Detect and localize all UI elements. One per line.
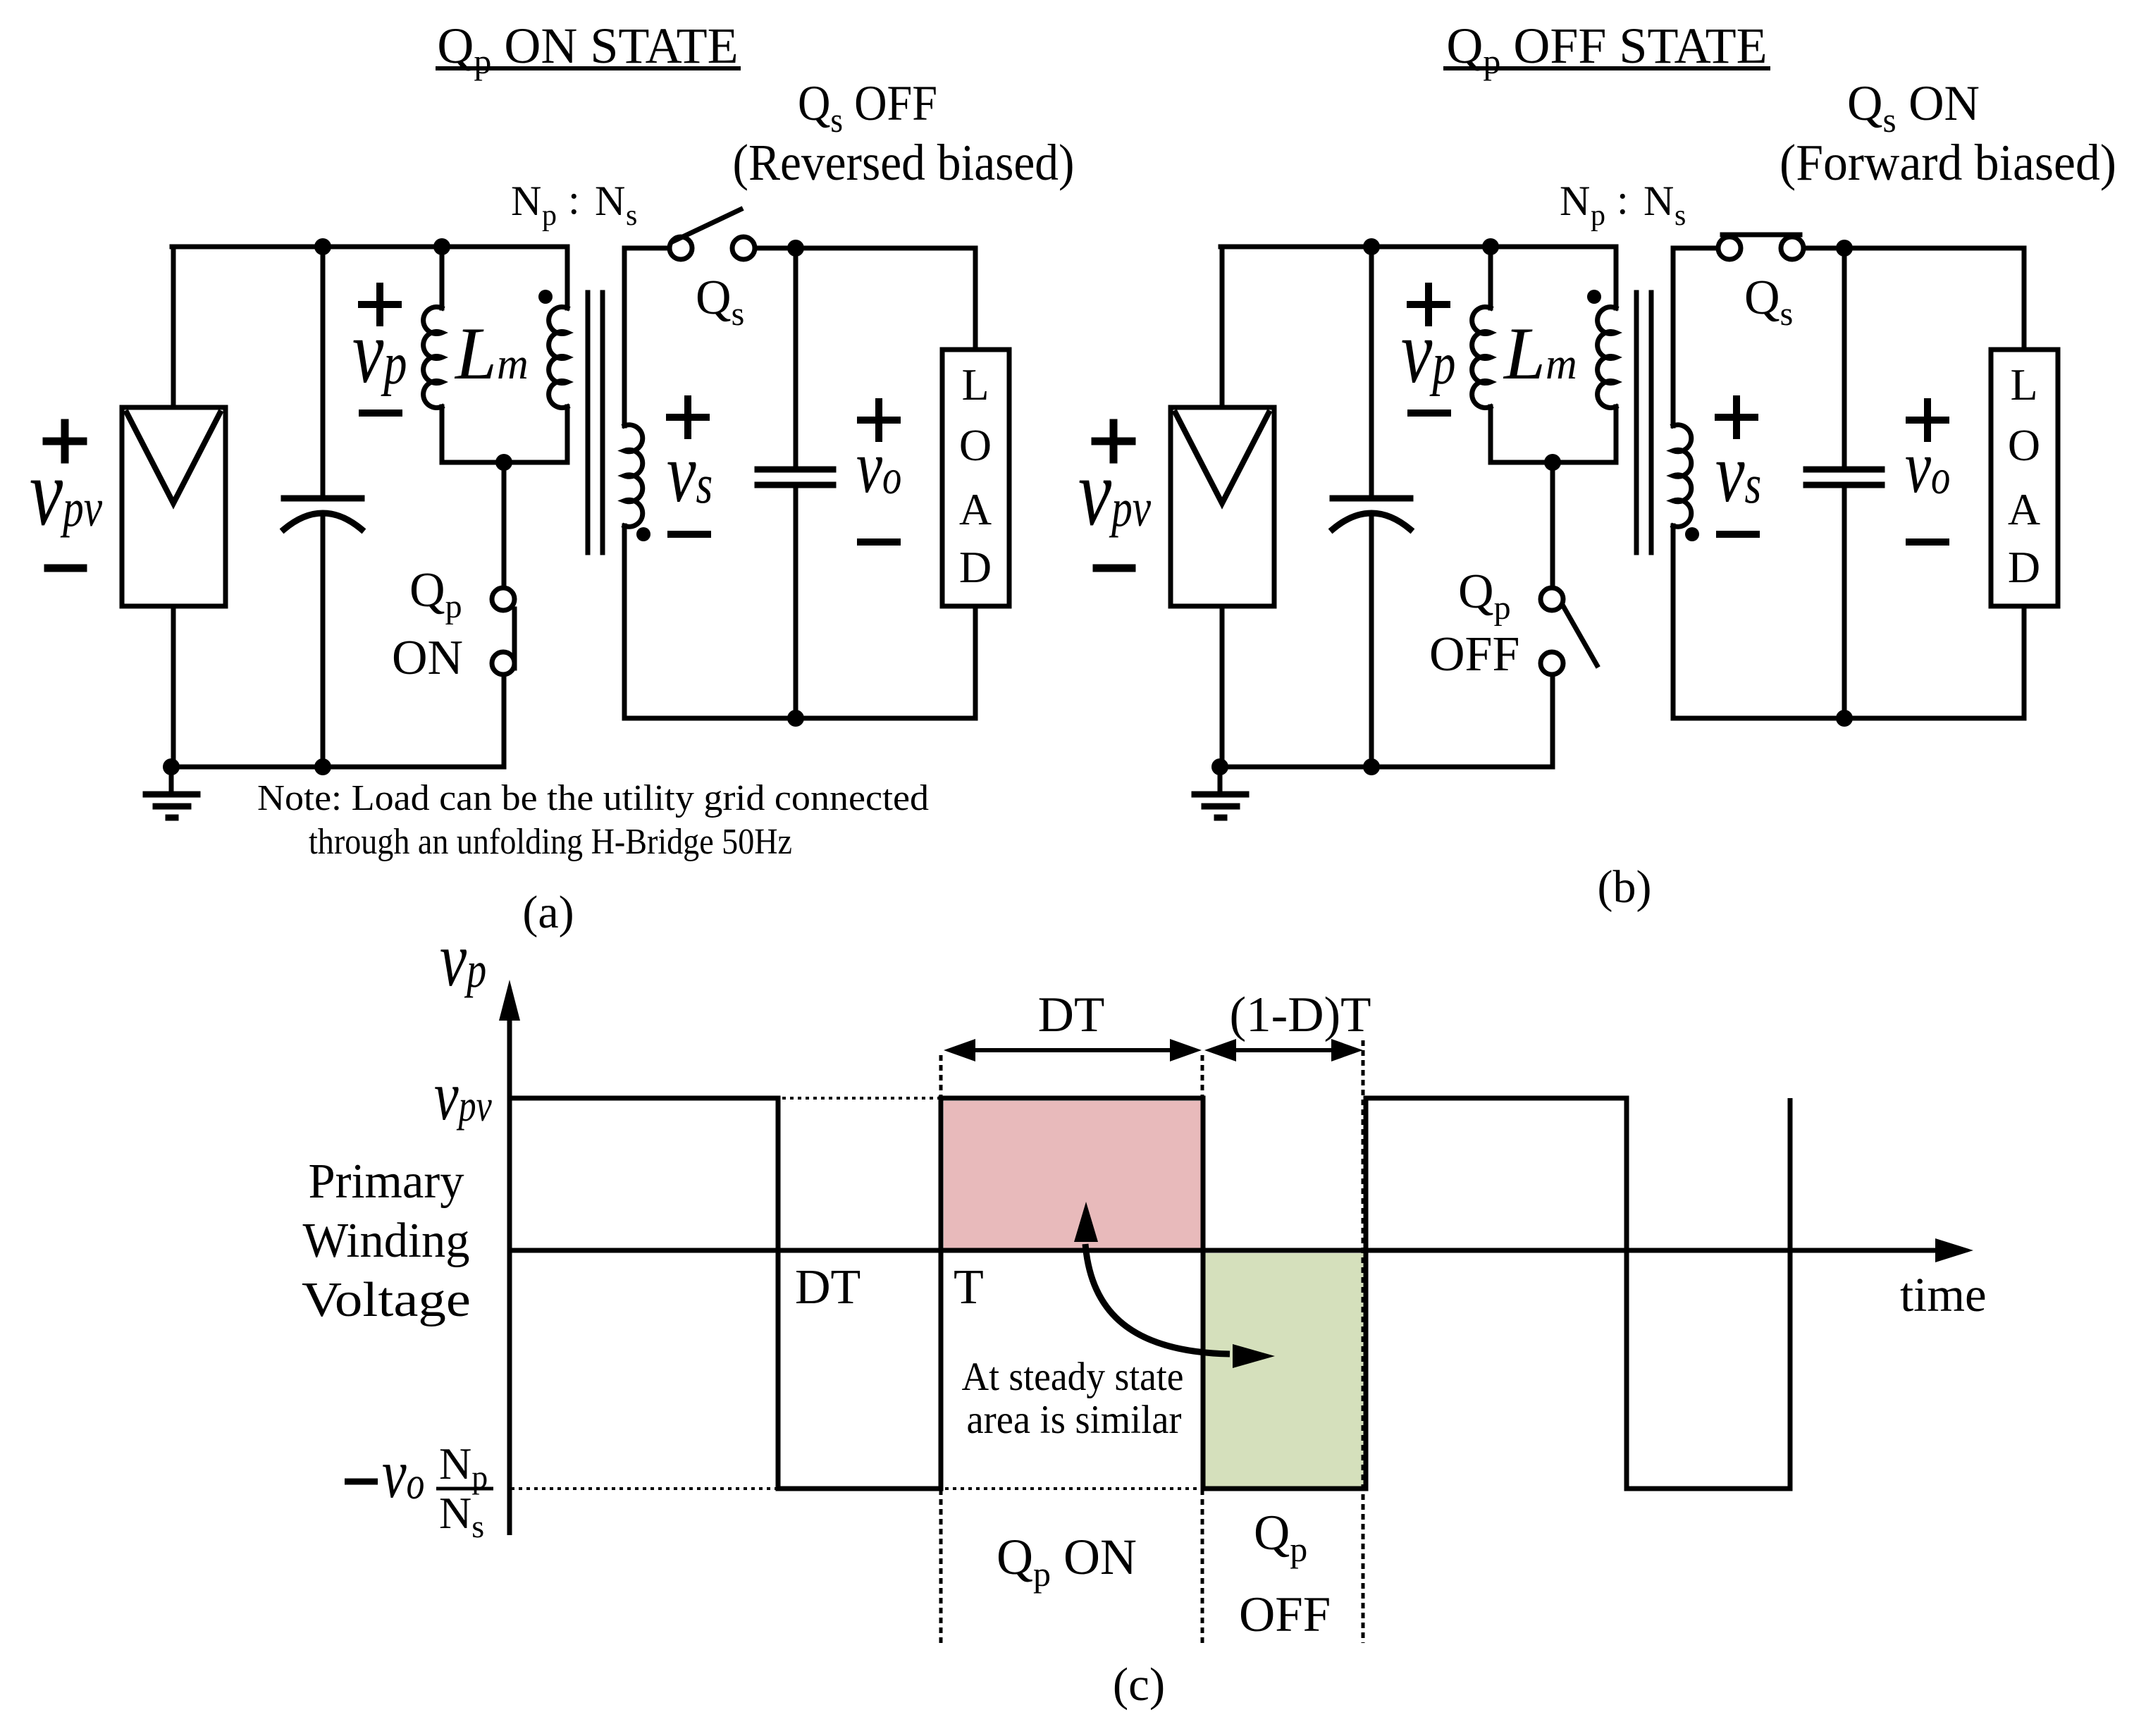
wire: Qp lower lead (b) — [1550, 675, 1555, 767]
svg-text:(Reversed biased): (Reversed biased) — [733, 134, 1075, 191]
note text — [257, 778, 929, 862]
dotted boundary at T — [939, 1055, 943, 1643]
transformer secondary winding (b) — [1673, 248, 1691, 718]
secondary polarity dot (b) — [1685, 527, 1699, 541]
wire: PV bottom lead (a) — [171, 606, 176, 767]
svg-text:A: A — [959, 484, 992, 534]
svg-text:DT: DT — [795, 1260, 861, 1315]
label: + vpv - (a) — [30, 423, 103, 568]
svg-text:Primary: Primary — [309, 1155, 464, 1209]
svg-text::: : — [568, 176, 580, 223]
svg-text:A: A — [2008, 484, 2040, 534]
dotted level line vpv — [511, 1097, 944, 1100]
svg-text:(b): (b) — [1598, 861, 1652, 913]
svg-text:N: N — [595, 178, 625, 224]
dotted boundary at 2T — [1362, 1040, 1365, 1643]
node: output cap top junction (b) — [1836, 240, 1853, 257]
PV source (solar panel) (b) — [1171, 407, 1274, 606]
load resistor block (b) — [1991, 350, 2058, 606]
label: At steady state / area is similar — [962, 1355, 1184, 1442]
node: top rail junction at Lm (a) — [433, 238, 450, 255]
curved arrow (steady state areas) — [1074, 1202, 1275, 1368]
label: Qp OFF (waveform) — [1239, 1506, 1331, 1642]
svg-text:T: T — [954, 1260, 984, 1315]
capacitor Cin (a) — [284, 247, 362, 767]
node: top rail junction at Cin (a) — [314, 238, 331, 255]
wire: load bottom lead (a) — [973, 606, 978, 718]
transformer core (a) — [588, 293, 603, 553]
capacitor Cout (b) — [1806, 248, 1882, 718]
wire: top rail (a) — [172, 245, 567, 250]
wire: PV bottom lead (b) — [1220, 606, 1225, 767]
svg-text:D: D — [959, 542, 992, 592]
label: Np : Ns turns ratio (b) — [1560, 176, 1686, 232]
(1-D)T duration arrow — [1204, 1039, 1363, 1061]
DT duration arrow — [944, 1039, 1202, 1061]
transformer primary winding (b) — [1598, 247, 1616, 462]
svg-text:Qs ON: Qs ON — [1847, 76, 1980, 140]
node: top rail junction at Cin (b) — [1363, 238, 1380, 255]
svg-text:Qs OFF: Qs OFF — [798, 76, 937, 140]
wire: load top lead (b) — [2022, 248, 2027, 350]
wire: Qp upper lead (a) — [502, 462, 507, 588]
wire: PV top lead (a) — [171, 247, 176, 407]
wire: primary loop bottom (b) — [1491, 460, 1616, 465]
square wave vp(t) — [510, 1098, 1790, 1489]
svg-text:Winding: Winding — [303, 1214, 470, 1268]
shaded DT area (pink) — [944, 1101, 1201, 1249]
node: output cap top junction (a) — [787, 240, 804, 257]
node: top rail junction at Lm (b) — [1482, 238, 1499, 255]
label: + vp - (b) — [1401, 286, 1455, 413]
inductor Lm (magnetizing) (b) — [1472, 247, 1491, 462]
label: Primary Winding Voltage — [302, 1155, 471, 1327]
dotted level line -voNp/Ns — [511, 1487, 1203, 1490]
transformer secondary winding (a) — [624, 248, 643, 718]
svg-text:N: N — [1560, 178, 1590, 224]
svg-text:(a): (a) — [522, 887, 574, 938]
label: + vs - (b) — [1715, 399, 1761, 534]
svg-text:p: p — [542, 199, 557, 232]
label: + vo - (a) — [856, 402, 901, 542]
wire: PV top lead (b) — [1220, 247, 1225, 407]
svg-text:Note: Load can be the utility: Note: Load can be the utility grid conne… — [257, 778, 929, 818]
svg-text:Qp ON: Qp ON — [997, 1529, 1137, 1594]
node: PV-ground junction (a) — [163, 758, 180, 775]
primary polarity dot (b) — [1587, 290, 1601, 304]
secondary polarity dot (a) — [636, 527, 650, 541]
wire: load top lead (a) — [973, 248, 978, 350]
wire: switch to load corner (a) — [755, 246, 975, 251]
svg-text:(1-D)T: (1-D)T — [1229, 987, 1371, 1042]
y axis vp — [499, 980, 520, 1535]
node: Qp top junction (a) — [495, 454, 512, 471]
wire: Qp upper lead (b) — [1550, 462, 1555, 588]
svg-text:At steady state: At steady state — [962, 1355, 1184, 1399]
label: + vp - (a) — [352, 286, 407, 413]
node: capacitor bottom junction (b) — [1363, 758, 1380, 775]
label: Qp OFF (b) — [1429, 565, 1519, 682]
primary polarity dot (a) — [538, 290, 553, 304]
transformer core (b) — [1636, 293, 1651, 553]
svg-text:N: N — [1643, 178, 1674, 224]
label: Qp ON (a) — [392, 563, 463, 685]
svg-text:OFF: OFF — [1429, 627, 1519, 682]
node: capacitor bottom junction (a) — [314, 758, 331, 775]
svg-text:time: time — [1900, 1268, 1987, 1322]
switch Qp closed (a) — [492, 588, 514, 675]
node: PV-ground junction (b) — [1211, 758, 1228, 775]
svg-text:through an unfolding H-Bridge: through an unfolding H-Bridge 50Hz — [309, 822, 792, 862]
node: output bottom junction (b) — [1836, 710, 1853, 727]
wire: secondary bottom rail (a) — [624, 716, 975, 721]
x axis time — [510, 1238, 1973, 1262]
label: + vs - (a) — [667, 399, 713, 534]
load resistor block (a) — [942, 350, 1009, 606]
node: output bottom junction (a) — [787, 710, 804, 727]
node: Qp top junction (b) — [1544, 454, 1561, 471]
svg-text:Voltage: Voltage — [302, 1273, 471, 1327]
wire: secondary top to switch (b) — [1673, 246, 1718, 251]
wire: secondary top to switch (a) — [624, 246, 670, 251]
wire: bottom rail (a) — [171, 765, 504, 770]
svg-text:O: O — [2008, 420, 2040, 470]
svg-text:s: s — [1674, 199, 1686, 232]
wire: secondary bottom rail (b) — [1673, 716, 2024, 721]
label: + vo - (b) — [1905, 402, 1950, 542]
ground symbol (a) — [146, 767, 197, 818]
title: Qp ON STATE (underlined) — [437, 18, 739, 81]
svg-text:OFF: OFF — [1239, 1587, 1331, 1642]
wire: top rail (b) — [1221, 245, 1616, 250]
wire: Qp lower lead (a) — [502, 675, 507, 767]
label: -vo Np/Ns level — [345, 1435, 493, 1544]
svg-text::: : — [1617, 176, 1629, 223]
wire: bottom rail (b) — [1220, 765, 1553, 770]
svg-text:area is similar: area is similar — [967, 1398, 1182, 1442]
svg-text:N: N — [511, 178, 541, 224]
ground symbol (b) — [1195, 767, 1246, 818]
capacitor Cin (b) — [1333, 247, 1410, 767]
svg-text:D: D — [2008, 542, 2040, 592]
shaded (1-D)T area (green) — [1205, 1253, 1364, 1486]
label: Np : Ns turns ratio — [511, 176, 637, 232]
svg-text:O: O — [959, 420, 992, 470]
dotted boundary at T+DT — [1201, 1055, 1204, 1643]
svg-text:(Forward biased): (Forward biased) — [1780, 134, 2116, 191]
title: Qp OFF STATE (underlined) — [1445, 18, 1768, 81]
svg-text:p: p — [1591, 199, 1605, 232]
svg-text:L: L — [961, 359, 989, 410]
capacitor Cout (a) — [758, 248, 833, 718]
switch Qs open (a) — [670, 209, 755, 259]
svg-text:(c): (c) — [1113, 1658, 1165, 1711]
svg-text:L: L — [2010, 359, 2037, 410]
inductor Lm (magnetizing) (a) — [424, 247, 442, 462]
wire: load bottom lead (b) — [2022, 606, 2027, 718]
label: + vpv - (b) — [1078, 423, 1152, 568]
svg-text:ON: ON — [392, 631, 463, 685]
switch Qs closed (b) — [1718, 235, 1803, 259]
svg-text:s: s — [626, 199, 637, 232]
PV source (solar panel) (a) — [122, 407, 226, 606]
wire: primary loop bottom (a) — [442, 460, 567, 465]
transformer primary winding (a) — [549, 247, 567, 462]
svg-text:DT: DT — [1038, 987, 1105, 1042]
switch Qp open (b) — [1541, 588, 1597, 675]
wire: switch to load corner (b) — [1803, 246, 2024, 251]
